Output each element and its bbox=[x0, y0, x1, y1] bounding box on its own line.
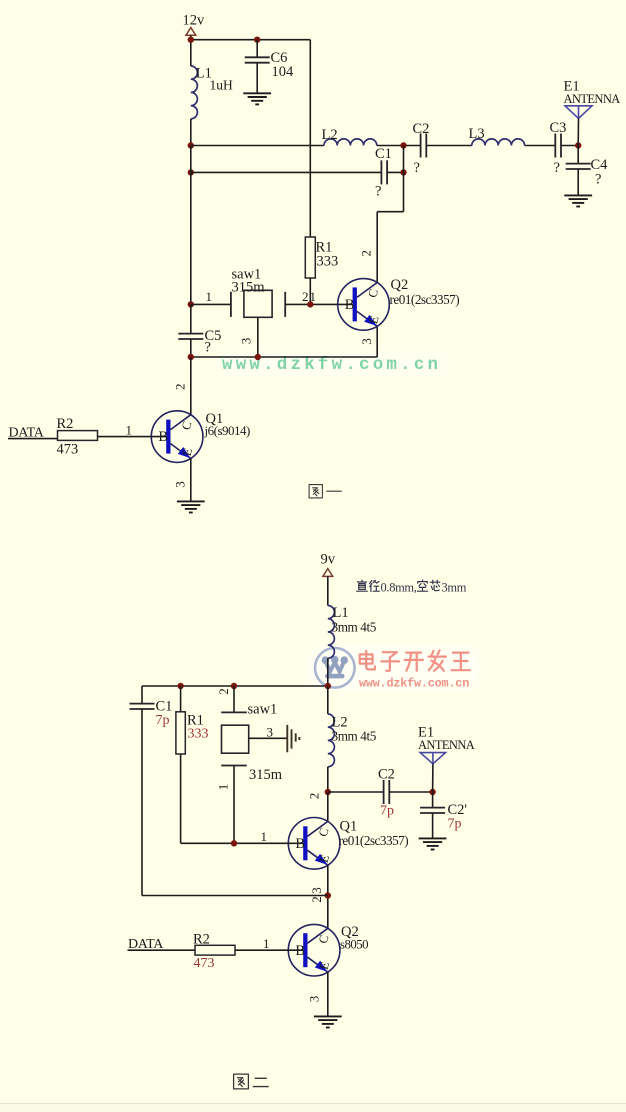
node antenna junction bbox=[575, 142, 581, 148]
antenna E1 symbol bbox=[565, 106, 592, 119]
svg-text:9v: 9v bbox=[321, 552, 336, 568]
resistor R2 473 fig1 bbox=[58, 431, 98, 441]
ground below C4 bbox=[564, 195, 592, 206]
wire C1 to junction column bbox=[387, 171, 403, 173]
node saw1 top junction fig2 bbox=[231, 683, 237, 689]
watermark dzkfw brand text bbox=[360, 651, 375, 670]
svg-text:3mm 4t5: 3mm 4t5 bbox=[332, 620, 377, 635]
svg-text:C1: C1 bbox=[375, 146, 392, 162]
wire C2 to antenna node fig2 bbox=[389, 791, 432, 793]
svg-text:315m: 315m bbox=[232, 280, 266, 296]
node saw1 pin3 junction bbox=[255, 354, 261, 360]
svg-text:3: 3 bbox=[306, 996, 321, 1003]
capacitor C2' 7p bbox=[432, 792, 434, 808]
node R1 top junction fig2 bbox=[177, 683, 183, 689]
svg-text:0.8mm,: 0.8mm, bbox=[381, 581, 417, 595]
ground bottom fig2 bbox=[314, 1016, 342, 1027]
wire 12v feed down to R1 bbox=[309, 40, 311, 237]
node R1 bottom junction bbox=[307, 301, 313, 307]
svg-text:?: ? bbox=[554, 160, 560, 176]
svg-text:ANTENNA: ANTENNA bbox=[418, 738, 475, 752]
svg-text:C3: C3 bbox=[550, 120, 567, 136]
svg-text:j6(s9014): j6(s9014) bbox=[204, 423, 251, 438]
node 12v junction bbox=[188, 37, 194, 43]
wire R2 to Q1 base bbox=[98, 436, 167, 438]
wire DATA to R2 fig2 bbox=[128, 949, 196, 951]
capacitor C5 bbox=[190, 304, 192, 333]
node C5 bottom junction bbox=[188, 354, 194, 360]
svg-text:www.dzkfw.com.cn: www.dzkfw.com.cn bbox=[359, 677, 469, 691]
node C1/C2 top junction bbox=[400, 142, 406, 148]
svg-text:2: 2 bbox=[307, 793, 322, 800]
wire Q1 emitter to ground bbox=[190, 458, 192, 501]
wire to C2 fig2 bbox=[328, 791, 384, 793]
svg-text:ANTENNA: ANTENNA bbox=[564, 92, 621, 106]
svg-text:3: 3 bbox=[238, 338, 253, 345]
node rail B junction bbox=[188, 169, 194, 175]
svg-text:333: 333 bbox=[188, 727, 209, 742]
wire top rail fig2 bbox=[142, 685, 328, 687]
svg-text:?: ? bbox=[375, 184, 381, 200]
svg-text:R2: R2 bbox=[57, 416, 74, 432]
capacitor C6 bbox=[256, 40, 258, 58]
svg-text:104: 104 bbox=[272, 64, 295, 80]
svg-text:L3: L3 bbox=[469, 126, 485, 142]
saw1 pin3 wire to ground bbox=[249, 737, 288, 739]
wire tank rail A bbox=[191, 145, 324, 147]
ground below Q1 bbox=[177, 501, 205, 512]
svg-text:saw1: saw1 bbox=[248, 702, 278, 718]
wire DATA to R2 bbox=[8, 438, 58, 440]
capacitor C4 bbox=[577, 146, 579, 164]
svg-text:7p: 7p bbox=[156, 713, 170, 728]
wire Q1 base fig2 bbox=[181, 842, 304, 844]
svg-text:C2: C2 bbox=[378, 767, 395, 783]
saw1 pin1 stem fig2 bbox=[233, 766, 235, 844]
svg-text:1uH: 1uH bbox=[210, 78, 234, 93]
node emitter-collector junction bbox=[325, 892, 331, 898]
side ground at saw1 pin3 bbox=[287, 725, 299, 752]
wire C3 to antenna node bbox=[561, 145, 578, 147]
ground below C2' bbox=[419, 838, 447, 849]
wire down to Q1 collector bbox=[190, 357, 192, 415]
resistor R2 473 fig2 bbox=[195, 945, 235, 955]
saw1 pin3 stem bbox=[257, 317, 259, 357]
capacitor C2 bbox=[421, 134, 427, 158]
caption tu-er (figure 2) bbox=[234, 1074, 249, 1089]
svg-text:Q2: Q2 bbox=[391, 277, 409, 293]
inductor L3 bbox=[472, 139, 525, 146]
node saw1 pin1 base junction bbox=[231, 840, 237, 846]
wire feedback rail fig2 bbox=[142, 895, 328, 897]
antenna E1 symbol fig2 bbox=[420, 753, 445, 764]
wire R2 to Q2 base fig2 bbox=[235, 949, 303, 951]
svg-text:?: ? bbox=[414, 160, 420, 176]
wire trunk to Q1 collector fig2 bbox=[327, 792, 329, 822]
saw resonator saw1 fig2 pin2 stem bbox=[233, 686, 235, 712]
svg-text:12v: 12v bbox=[183, 13, 206, 29]
svg-text:C2: C2 bbox=[413, 121, 430, 137]
svg-text:2: 2 bbox=[309, 896, 324, 903]
inductor L2 bbox=[324, 139, 377, 146]
svg-text:s8050: s8050 bbox=[340, 937, 368, 951]
bottom edge strip bbox=[0, 1104, 626, 1112]
wire junction column down to Q2 collector bbox=[403, 146, 405, 212]
note: diameter 0.8mm air-core 3mm bbox=[357, 580, 368, 591]
wire Q2 emitter down bbox=[376, 326, 378, 357]
svg-text:3: 3 bbox=[172, 481, 187, 488]
watermark logo halo bbox=[308, 646, 480, 690]
svg-text:1: 1 bbox=[263, 936, 270, 951]
svg-text:315m: 315m bbox=[249, 767, 283, 783]
wire emitter rail bbox=[191, 356, 377, 358]
ground below C6 bbox=[243, 93, 271, 104]
capacitor C3 bbox=[555, 134, 561, 158]
node antenna junction fig2 bbox=[429, 789, 435, 795]
capacitor C2 7p fig2 bbox=[384, 780, 390, 804]
wire C2 to L3 bbox=[426, 145, 472, 147]
svg-text:7p: 7p bbox=[448, 817, 462, 832]
svg-text:1: 1 bbox=[206, 289, 213, 304]
inductor L1 fig2 bbox=[328, 606, 335, 659]
svg-text:L2: L2 bbox=[322, 127, 338, 143]
wire L3 to C3 bbox=[525, 145, 556, 147]
saw resonator saw1 symbol bbox=[231, 290, 285, 317]
svg-text:473: 473 bbox=[194, 956, 215, 971]
node C6 tap bbox=[254, 37, 260, 43]
node saw1 pin1 junction bbox=[188, 301, 194, 307]
wire 9v stem bbox=[327, 576, 329, 605]
transistor Q1 re01(2sc3357) fig2 bbox=[288, 818, 340, 870]
wire L1 to junction bbox=[327, 658, 329, 686]
svg-text:2: 2 bbox=[172, 384, 187, 391]
svg-text:7p: 7p bbox=[380, 804, 394, 819]
svg-text:B: B bbox=[345, 297, 355, 313]
wire L2 to C2 bbox=[377, 145, 421, 147]
node L1 bottom junction bbox=[188, 142, 194, 148]
wire tank rail B bbox=[191, 171, 382, 173]
svg-text:2: 2 bbox=[216, 688, 231, 695]
svg-text:2: 2 bbox=[302, 289, 309, 304]
watermark www.dzkfw.com.cn mint bbox=[218, 351, 450, 375]
inductor L1 1uH bbox=[191, 66, 198, 119]
wire Q1 emitter to Q2 collector bbox=[327, 865, 329, 928]
resistor R1 333 fig2 bbox=[180, 686, 182, 712]
svg-text:1: 1 bbox=[261, 829, 268, 844]
svg-text:3mm: 3mm bbox=[442, 581, 467, 595]
svg-text:?: ? bbox=[205, 340, 211, 356]
svg-text:1: 1 bbox=[216, 784, 231, 791]
power arrow 12V bbox=[186, 28, 196, 36]
inductor L2 fig2 bbox=[327, 686, 329, 714]
saw resonator saw1 symbol fig2 bbox=[221, 712, 249, 765]
svg-text:1: 1 bbox=[126, 423, 133, 438]
svg-text:333: 333 bbox=[317, 254, 339, 270]
node trunk top junction bbox=[325, 683, 331, 689]
svg-text:3: 3 bbox=[359, 338, 374, 345]
svg-text:473: 473 bbox=[57, 442, 79, 458]
svg-text:re01(2sc3357): re01(2sc3357) bbox=[390, 292, 460, 307]
svg-text:R2: R2 bbox=[193, 932, 210, 948]
transistor Q1 j6(s9014) bbox=[151, 411, 203, 463]
watermark W crown logo bbox=[315, 648, 355, 688]
caption tu-yi (figure 1) bbox=[309, 485, 322, 498]
wire saw1 pin2 to Q2 base bbox=[285, 303, 352, 305]
svg-text:?: ? bbox=[595, 172, 601, 188]
wire rail down left side bbox=[190, 146, 192, 305]
svg-text:3mm 4t5: 3mm 4t5 bbox=[332, 729, 377, 744]
capacitor C1 bbox=[381, 160, 387, 184]
capacitor C1 7p fig2 bbox=[130, 704, 155, 709]
node C2 junction fig2 bbox=[325, 789, 331, 795]
svg-text:3: 3 bbox=[267, 725, 274, 740]
transistor Q2 s8050 fig2 bbox=[288, 924, 340, 976]
wire 12v stem and top rail bbox=[190, 35, 192, 66]
svg-text:re01(2sc3357): re01(2sc3357) bbox=[339, 833, 409, 848]
transistor Q2 re01(2sc3357) bbox=[338, 279, 390, 331]
power arrow 9V bbox=[323, 569, 333, 577]
svg-text:2: 2 bbox=[359, 250, 374, 256]
wire Q2 emitter to ground fig2 bbox=[327, 972, 329, 1017]
node C1 right junction bbox=[400, 169, 406, 175]
wire to saw1 pin1 bbox=[191, 303, 231, 305]
resistor R1 333 bbox=[305, 237, 315, 278]
svg-text:3: 3 bbox=[309, 887, 324, 894]
